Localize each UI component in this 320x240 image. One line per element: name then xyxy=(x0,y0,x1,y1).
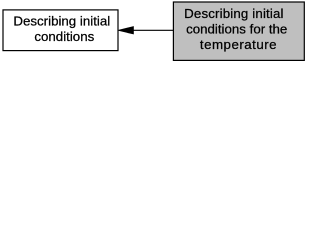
svg-text:conditions for the: conditions for the xyxy=(186,21,287,36)
svg-text:conditions: conditions xyxy=(34,29,94,44)
node: Describing initial conditions (left box) xyxy=(3,10,118,51)
node: Describing initial conditions for the temperature (right box, current page) xyxy=(173,2,304,60)
edge: arrow from right box to left box xyxy=(119,27,174,34)
svg-text:Describing initial: Describing initial xyxy=(184,6,284,21)
svg-text:temperature: temperature xyxy=(200,37,277,52)
svg-text:Describing initial: Describing initial xyxy=(13,14,110,29)
